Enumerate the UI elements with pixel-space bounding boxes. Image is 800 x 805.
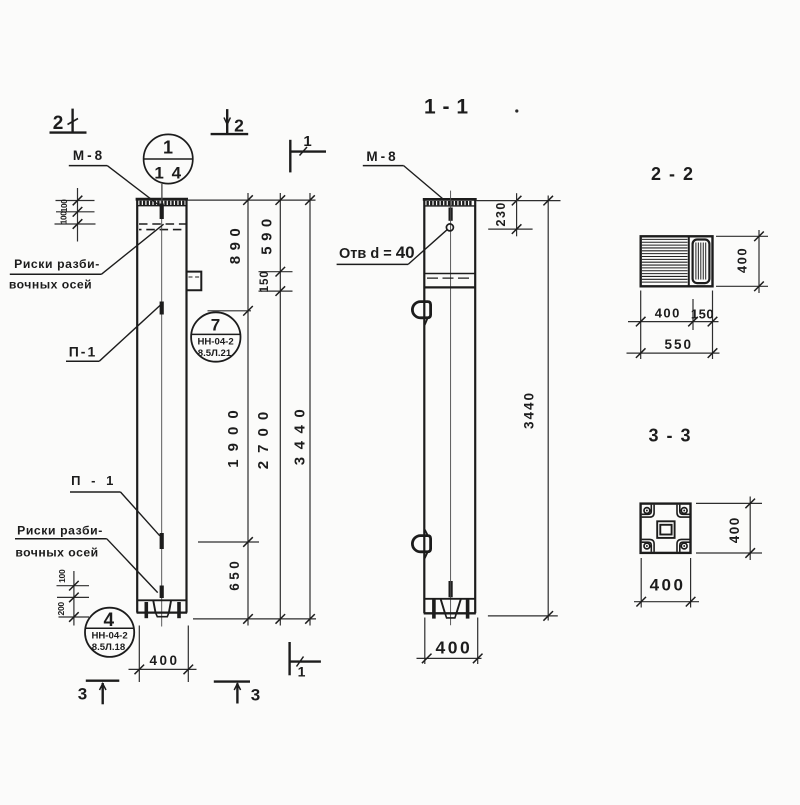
svg-text:2 - 2: 2 - 2 [651, 164, 695, 184]
svg-text:400: 400 [436, 638, 473, 658]
svg-text:Риски разби-: Риски разби- [17, 524, 103, 538]
svg-text:550: 550 [665, 337, 694, 352]
svg-text:М-8: М-8 [366, 149, 398, 164]
svg-text:400: 400 [734, 247, 749, 273]
svg-text:П-1: П-1 [69, 344, 98, 360]
svg-text:200: 200 [56, 602, 66, 616]
svg-text:4: 4 [104, 610, 115, 631]
svg-text:3 - 3: 3 - 3 [649, 426, 693, 446]
svg-text:890: 890 [227, 223, 244, 265]
svg-text:1: 1 [303, 133, 311, 150]
svg-text:3: 3 [78, 685, 87, 704]
svg-text:2: 2 [234, 116, 244, 136]
svg-text:8.5Л.21: 8.5Л.21 [198, 348, 232, 359]
svg-text:3440: 3440 [522, 391, 537, 429]
svg-text:вочных осей: вочных осей [9, 278, 92, 292]
svg-text:3: 3 [251, 686, 260, 705]
svg-text:400: 400 [727, 516, 742, 543]
svg-text:П - 1: П - 1 [71, 473, 117, 488]
svg-text:НН-04-2: НН-04-2 [197, 336, 233, 347]
svg-text:1 - 1: 1 - 1 [424, 96, 469, 119]
svg-text:400: 400 [149, 653, 179, 668]
svg-text:М-8: М-8 [73, 148, 105, 163]
svg-text:150: 150 [691, 307, 714, 322]
svg-text:400: 400 [655, 305, 681, 320]
svg-text:3440: 3440 [291, 402, 308, 465]
svg-text:230: 230 [494, 201, 508, 226]
svg-text:НН-04-2: НН-04-2 [91, 631, 127, 642]
svg-text:100: 100 [57, 569, 67, 583]
svg-text:650: 650 [227, 558, 242, 591]
svg-text:8.5Л.18: 8.5Л.18 [92, 642, 126, 653]
svg-text:150: 150 [259, 270, 271, 292]
svg-text:7: 7 [211, 316, 220, 335]
svg-text:100: 100 [59, 211, 68, 225]
svg-text:1 4: 1 4 [154, 164, 182, 183]
svg-text:Отв d = 40: Отв d = 40 [339, 243, 415, 262]
svg-text:590: 590 [259, 213, 276, 255]
svg-text:100: 100 [60, 199, 69, 213]
svg-text:400: 400 [650, 576, 686, 595]
svg-text:Риски разби-: Риски разби- [14, 257, 100, 271]
svg-text:1900: 1900 [225, 402, 242, 467]
svg-text:2700: 2700 [255, 404, 272, 469]
svg-text:2: 2 [53, 113, 64, 134]
svg-text:вочных осей: вочных осей [15, 545, 98, 559]
svg-text:1: 1 [298, 664, 306, 680]
svg-text:1: 1 [163, 138, 173, 158]
